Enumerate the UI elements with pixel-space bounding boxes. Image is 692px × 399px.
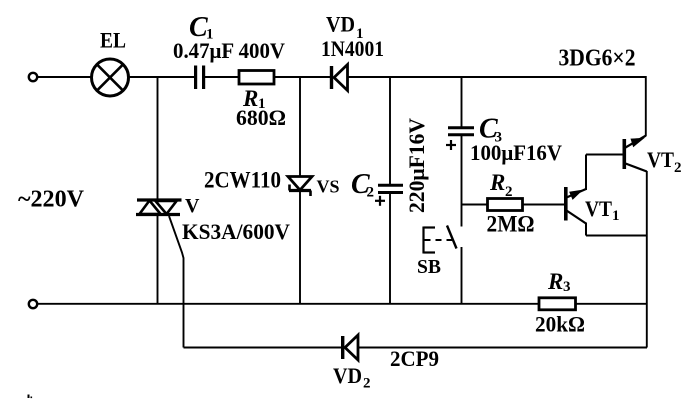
svg-text:680Ω: 680Ω	[236, 105, 286, 130]
wire (C1 to R1)	[205, 76, 239, 78]
wire (lamp to C1)	[129, 76, 195, 78]
resistor R1	[239, 71, 274, 85]
svg-text:VT: VT	[585, 196, 612, 221]
arrow (VT1 emitter)	[570, 191, 582, 199]
wire (C2 branch upper)	[389, 77, 391, 184]
svg-text:R: R	[489, 170, 505, 195]
bottom wire (terminal to R3)	[38, 303, 540, 305]
diode VD1	[332, 65, 348, 91]
wire (terminal to lamp)	[38, 76, 92, 78]
wire (R1 to VD1)	[274, 76, 331, 78]
wire (VT1 emitter to VT2 base)	[586, 154, 623, 156]
svg-text:2: 2	[367, 185, 375, 201]
polarity + of C2	[375, 196, 385, 206]
wire (C3/SB branch from top)	[461, 77, 463, 127]
svg-text:2: 2	[674, 160, 682, 176]
svg-text:2: 2	[505, 184, 513, 200]
terminal (top-left input)	[29, 73, 37, 81]
paper specks (bottom-left)	[28, 395, 30, 399]
svg-text:2CP9: 2CP9	[390, 346, 439, 371]
svg-text:VD: VD	[333, 363, 362, 388]
svg-text:220μF16V: 220μF16V	[404, 118, 429, 213]
transistor VT1	[566, 155, 586, 236]
svg-text:0.47μF 400V: 0.47μF 400V	[173, 38, 285, 63]
svg-text:2MΩ: 2MΩ	[487, 212, 535, 237]
svg-text:2: 2	[363, 376, 371, 392]
wire (VS branch upper)	[299, 77, 301, 176]
wire (VD2 row left)	[184, 347, 342, 349]
resistor R2	[488, 199, 523, 211]
wire (VT2 collector down to VT1 collector row and bottom)	[646, 171, 648, 348]
transistor VT2	[624, 136, 647, 172]
svg-text:KS3A/600V: KS3A/600V	[182, 219, 290, 244]
svg-text:1: 1	[612, 208, 620, 224]
zener VS	[288, 177, 312, 197]
wire (SB lower to bottom wire)	[461, 247, 463, 304]
triac V	[136, 200, 182, 215]
wire (junction at x=157 down to triac)	[157, 77, 159, 199]
svg-text:3: 3	[563, 279, 571, 295]
svg-text:20kΩ: 20kΩ	[535, 312, 585, 337]
svg-text:~220V: ~220V	[18, 187, 85, 213]
pushbutton SB	[424, 226, 457, 254]
wire (R3 to right vertical)	[576, 303, 648, 305]
svg-text:R: R	[547, 269, 563, 294]
wire (R2 to VT1 base)	[523, 204, 565, 206]
lamp EL	[92, 59, 129, 96]
capacitor C3	[448, 128, 474, 135]
capacitor C1	[196, 66, 204, 90]
arrow (VT2 emitter)	[631, 139, 643, 147]
wire (branch to R2)	[462, 204, 488, 206]
svg-text:1N4001: 1N4001	[321, 36, 384, 61]
wire (VD1 to right corner)	[348, 76, 647, 78]
svg-text:EL: EL	[100, 28, 126, 53]
svg-text:2CW110: 2CW110	[204, 168, 281, 193]
svg-text:VD: VD	[326, 12, 355, 37]
svg-text:VS: VS	[317, 177, 340, 197]
wire (triac gate diagonal to VD2 row)	[169, 216, 184, 348]
svg-text:SB: SB	[417, 256, 441, 278]
wire (VT1 collector row to right vertical)	[586, 235, 647, 237]
terminal (bottom-left)	[29, 300, 37, 308]
svg-text:3DG6×2: 3DG6×2	[559, 46, 636, 72]
wire (C3 to SB)	[461, 135, 463, 227]
wire (C2 branch lower)	[389, 193, 391, 304]
polarity + of C3	[446, 140, 456, 150]
wire (triac T2 down to bottom wire)	[157, 215, 159, 304]
wire (VS branch lower)	[299, 191, 301, 304]
diode VD2	[343, 335, 358, 360]
wire (right corner down to VT2 emitter)	[645, 76, 647, 136]
svg-text:100μF16V: 100μF16V	[470, 140, 562, 165]
svg-text:V: V	[185, 195, 200, 217]
wire (VD2 row right)	[358, 347, 647, 349]
resistor R3	[539, 298, 576, 310]
svg-text:VT: VT	[647, 147, 674, 172]
capacitor C2	[378, 185, 403, 192]
